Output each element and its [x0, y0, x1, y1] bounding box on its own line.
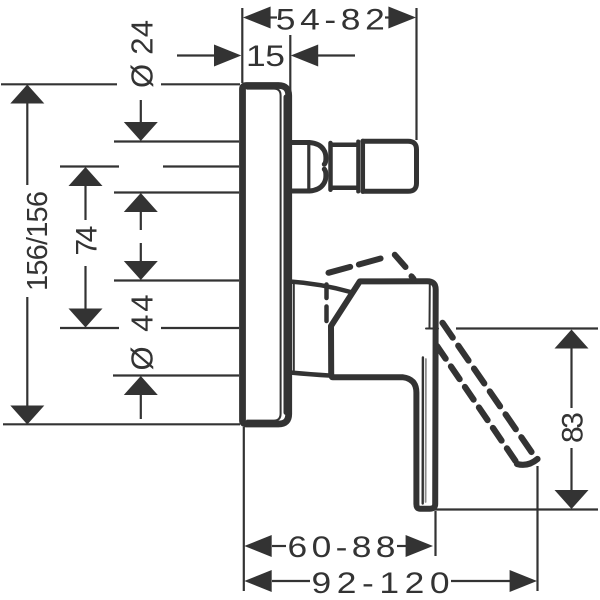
- svg-text:Ø 44: Ø 44: [125, 295, 160, 371]
- dim 15 right arrow shaft: [318, 54, 355, 56]
- spout mid cylinder right edge: [356, 142, 360, 192]
- dim 83 top shaft: [570, 348, 572, 408]
- dim 74 top shaft: [84, 186, 86, 220]
- dim 74 bottom shaft: [84, 266, 86, 309]
- bottom reference line y424: [3, 423, 240, 425]
- svg-text:74: 74: [71, 226, 104, 256]
- dim 92-120 left extension continues on x244.5: [243, 557, 245, 591]
- top reference line y84 left of Ø24 text: [1, 83, 117, 85]
- dim 156/156 top arrowhead: [10, 85, 44, 104]
- spout end cap left edge: [361, 141, 366, 192]
- spout mid cylinder: [331, 143, 358, 190]
- Ø44 top reference line: [114, 279, 239, 281]
- dim 156/156 bottom shaft: [26, 297, 28, 406]
- dim 92-120 right extension line: [536, 466, 538, 591]
- svg-text:156/156: 156/156: [22, 191, 54, 291]
- dim 74 bottom arrowhead: [69, 309, 103, 328]
- dashed lever tip (open position): [517, 459, 538, 465]
- dim Ø44 bottom arrowhead: [124, 376, 158, 395]
- handle escutcheon top edge: [290, 282, 351, 293]
- dim Ø24 bottom arrow shaft: [140, 212, 142, 230]
- dim 156/156 top shaft: [26, 103, 28, 185]
- svg-text:83: 83: [557, 412, 590, 443]
- dim 60-88 left arrowhead: [244, 535, 271, 557]
- dim 15 left arrow shaft: [177, 54, 216, 56]
- dim 15 right arrowhead: [291, 45, 318, 67]
- dim 54-82 right extension line: [415, 8, 417, 140]
- dim 92-120 right arrowhead: [510, 570, 537, 592]
- dim 92-120 line right stub: [451, 580, 510, 582]
- dim 83 top arrowhead: [555, 330, 589, 349]
- dim 54-82 line left stub: [268, 16, 277, 18]
- svg-text:54-82: 54-82: [276, 2, 385, 36]
- dim 60-88 line right stub: [397, 545, 407, 547]
- dim 92-120 line left stub: [272, 580, 310, 582]
- dashed handle top edge (open position): [329, 258, 384, 273]
- dim 15 right extension line: [289, 35, 291, 94]
- spout axis line right segment: [163, 165, 239, 167]
- dim Ø24 bottom arrowhead: [124, 193, 158, 212]
- dim Ø44 top arrow shaft: [140, 243, 142, 261]
- Ø44 bottom reference line: [113, 374, 239, 376]
- handle axis line left segment: [60, 327, 119, 329]
- dim Ø44 bottom arrow shaft: [140, 395, 142, 419]
- dim 60-88 left extension line: [243, 427, 245, 557]
- handle escutcheon bottom edge: [290, 373, 329, 376]
- handle body and lever outline: [331, 281, 436, 509]
- dim 83 top reference line: [456, 327, 598, 329]
- top reference line y84 right of Ø24 text: [161, 83, 240, 85]
- spout escutcheon sleeve bottom: [290, 169, 326, 191]
- Ø24 bottom reference line: [114, 191, 239, 193]
- dashed lever right edge (open position): [443, 323, 532, 452]
- dim 54-82 right arrowhead: [388, 7, 416, 29]
- spout end cap outline: [363, 141, 417, 191]
- spout sleeve inner edge: [307, 145, 310, 189]
- dim 83 bottom arrowhead: [555, 490, 589, 509]
- handle pivot seam tick: [426, 328, 438, 330]
- dashed lever left edge (open position): [437, 346, 516, 461]
- dim 54-82 left extension line: [241, 8, 243, 83]
- dashed corner (open position): [395, 255, 406, 267]
- spout axis line left segment: [60, 165, 119, 167]
- dim 60-88 right extension line: [434, 511, 436, 556]
- spout escutcheon sleeve top: [290, 143, 326, 165]
- dashed dot on top edge: [412, 276, 414, 279]
- svg-text:60-88: 60-88: [288, 530, 396, 564]
- dim 83 bottom reference line: [432, 508, 598, 510]
- svg-text:15: 15: [246, 38, 285, 72]
- dim 60-88 line left stub: [272, 545, 286, 547]
- lever inner thin line: [422, 358, 425, 504]
- handle escutcheon front edge: [293, 283, 295, 372]
- dim 54-82 left arrowhead: [243, 7, 271, 29]
- dim 15 left arrowhead: [214, 45, 241, 67]
- dim Ø24 top arrow shaft: [140, 100, 142, 124]
- dim 74 top arrowhead: [69, 167, 103, 186]
- lever inner highlight line: [425, 359, 427, 502]
- dim 54-82 line right stub: [385, 16, 391, 18]
- svg-text:Ø 24: Ø 24: [125, 20, 160, 88]
- handle axis line right segment: [161, 327, 239, 329]
- dim 92-120 left arrowhead: [244, 570, 271, 592]
- dim Ø44 top arrowhead: [124, 261, 158, 280]
- dim 60-88 right arrowhead: [406, 535, 433, 557]
- wall plate outer outline: [243, 86, 289, 425]
- dim Ø24 top arrowhead: [124, 122, 158, 141]
- Ø24 top reference line: [114, 140, 239, 142]
- wall plate inner face edge: [247, 89, 281, 421]
- dim 156/156 bottom arrowhead: [10, 406, 44, 425]
- wall plate right side face line: [284, 97, 289, 413]
- handle escutcheon hidden dashed edge: [324, 285, 329, 322]
- dim 83 bottom shaft: [570, 448, 572, 490]
- handle inner edge upper thin line: [429, 284, 431, 328]
